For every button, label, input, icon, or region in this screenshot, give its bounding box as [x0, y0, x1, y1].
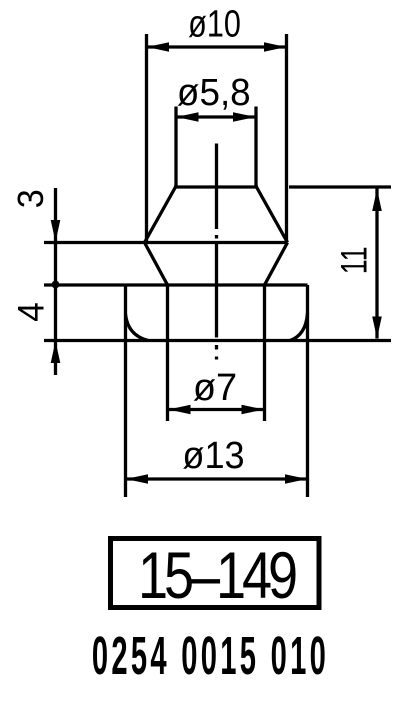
svg-text:ø10: ø10	[188, 3, 241, 45]
svg-text:0254 0015 010: 0254 0015 010	[92, 627, 329, 687]
svg-text:ø5,8: ø5,8	[177, 70, 251, 113]
svg-text:4: 4	[10, 302, 52, 322]
svg-text:ø13: ø13	[182, 433, 244, 476]
svg-text:3: 3	[11, 189, 51, 208]
svg-text:ø7: ø7	[193, 367, 237, 409]
svg-text:15–149: 15–149	[138, 538, 296, 612]
svg-text:11: 11	[333, 246, 374, 274]
